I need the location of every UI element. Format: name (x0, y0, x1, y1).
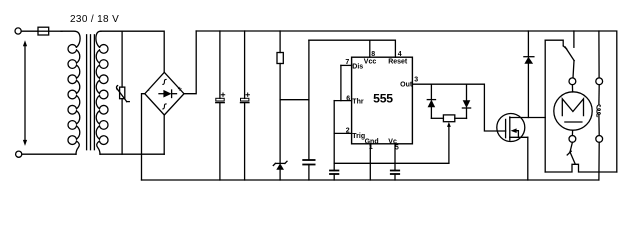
transformer T1 primary winding (61, 31, 80, 154)
resistor R1 (277, 31, 283, 163)
diode D3 (462, 84, 470, 118)
bridge rectifier B1 (145, 72, 184, 115)
wire bridge minus to ground rail (142, 94, 145, 180)
svg-text:Vcc: Vcc (364, 58, 377, 65)
wire secondary top rail (101, 31, 164, 72)
wire blade to motor top (573, 61, 574, 78)
svg-text:Reset: Reset (388, 58, 408, 65)
node L2 mains terminal bottom (16, 151, 22, 157)
capacitor C3 (303, 160, 314, 180)
wire fuse to primary (49, 30, 62, 32)
transformer core (87, 35, 95, 150)
wire mains bottom (22, 153, 76, 155)
svg-text:3: 3 (414, 76, 418, 83)
node motor brush top (569, 78, 576, 85)
transformer T1 secondary winding (96, 31, 108, 154)
wire 555 supply vertical (308, 40, 310, 160)
wire +V top rail (196, 31, 617, 172)
svg-text:Thr: Thr (352, 99, 364, 106)
zener diode D1 (273, 161, 287, 180)
wire secondary bottom (100, 153, 164, 155)
motor M1 (554, 92, 592, 130)
svg-text:230 / 18 V: 230 / 18 V (70, 14, 119, 25)
svg-text:Dis: Dis (352, 64, 363, 71)
wire bottom A-left (545, 164, 617, 172)
svg-text:+: + (178, 85, 183, 94)
fuse F1 (38, 27, 49, 35)
node motor brush bottom (569, 136, 576, 143)
switch S1b blade (567, 142, 575, 163)
switch S1a fixed contact from rail (573, 31, 575, 47)
capacitor C4 (330, 171, 338, 181)
svg-text:Trig: Trig (352, 133, 365, 140)
wire pin7 to pin6 (340, 65, 342, 100)
AC source arrow (23, 40, 27, 146)
svg-text:555: 555 (373, 91, 393, 105)
potentiometer P1 (431, 115, 466, 163)
varistor RV1 (116, 31, 129, 154)
wire pin8 (369, 40, 371, 57)
wire pin7 Dis (341, 64, 352, 66)
svg-text:-: - (147, 86, 150, 95)
diode D2 (427, 84, 435, 118)
node coil terminal top (596, 78, 603, 85)
transistor Q1 MOSFET (497, 114, 545, 181)
wire brush to motor (571, 85, 573, 92)
wire bridge bottom vertex down to AC bottom (163, 115, 165, 154)
svg-text:Out: Out (400, 81, 413, 88)
wire pin5 Vc (394, 144, 396, 171)
node coil terminal bottom (596, 136, 603, 143)
wire pin3 out (413, 84, 506, 131)
wire drain top to switch (545, 40, 563, 46)
wire coil bottom down to ground rail (598, 142, 600, 180)
inductor coil L (597, 105, 600, 117)
wire wiper to Thr/Trig (334, 162, 449, 164)
wire coil to terminal (598, 115, 600, 136)
wire zener tap to 555 supply (280, 99, 309, 101)
wire right branch (598, 31, 600, 78)
wire Thr-Trig vertical (333, 101, 335, 171)
switch S1a blade (563, 46, 574, 61)
wire motor to brush bottom (571, 130, 573, 135)
wire drain node vertical (544, 40, 546, 172)
node L1 mains terminal top (15, 28, 21, 34)
capacitor C2 electrolytic (241, 31, 250, 180)
diode D4 flyback (524, 31, 534, 118)
wire mains top (21, 30, 38, 32)
IC U1 555 (345, 51, 418, 152)
wire bridge plus up to +rail (184, 31, 196, 94)
wire pin1 Gnd (369, 144, 371, 180)
wire terminal to coil (598, 85, 600, 104)
wire pin2 Trig (334, 132, 351, 134)
svg-text:4: 4 (398, 51, 402, 58)
capacitor C5 (391, 171, 399, 181)
svg-text:8: 8 (371, 51, 375, 58)
wire pin6 Thr (334, 100, 351, 102)
capacitor C1 electrolytic (216, 31, 225, 180)
wire 555 supply horizontal (309, 40, 396, 57)
wire ground rail (142, 179, 599, 181)
